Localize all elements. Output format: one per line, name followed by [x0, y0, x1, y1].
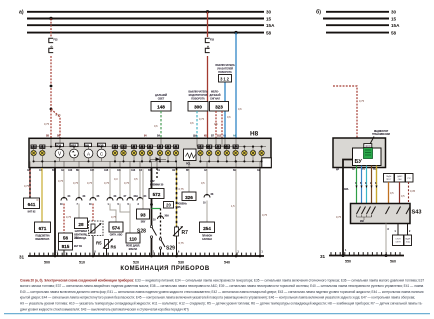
svg-text:СИГНАЛ: СИГНАЛ	[210, 98, 220, 101]
svg-text:0,5: 0,5	[401, 194, 405, 198]
svg-text:СИГН: СИГН	[395, 242, 401, 244]
connector E35	[112, 145, 118, 156]
svg-text:крытой двери; Е44 — сигнальная: крытой двери; Е44 — сигнальная лампа неп…	[20, 296, 415, 300]
svg-text:0,75: 0,75	[124, 181, 130, 185]
wire bus15 to fuse F13	[50, 19, 52, 38]
internal entry stubs top	[51, 139, 236, 147]
rheostat R6	[103, 239, 117, 250]
rheostat R7	[173, 226, 188, 236]
box 326	[182, 192, 196, 201]
gauge H9	[84, 143, 93, 161]
svg-text:ПОВОРОТА: ПОВОРОТА	[191, 98, 205, 101]
svg-text:58: 58	[266, 30, 272, 35]
wire 323 pin1 to H8	[215, 111, 217, 138]
box 641	[24, 198, 40, 213]
svg-text:ИНДИКАТОР: ИНДИКАТОР	[374, 130, 389, 133]
svg-text:110: 110	[129, 237, 137, 242]
connector X7 pin5	[114, 168, 127, 206]
connector E49	[250, 150, 255, 155]
internal bus bottom right	[200, 160, 266, 162]
wire to box 93	[142, 168, 144, 209]
svg-text:148: 148	[157, 105, 165, 110]
svg-text:ПОДСВЕТКА: ПОДСВЕТКА	[35, 234, 50, 237]
wire bus30 to fuse F15	[207, 12, 209, 37]
svg-text:0,6: 0,6	[154, 124, 158, 128]
box 815	[59, 242, 83, 251]
box 148 high beam	[151, 94, 171, 111]
connector E38	[139, 145, 145, 156]
svg-text:572: 572	[153, 192, 161, 197]
svg-text:15А: 15А	[391, 23, 400, 28]
svg-text:ПРОТ: ПРОТ	[386, 179, 392, 181]
svg-text:ПОВОРОТА: ПОВОРОТА	[218, 71, 232, 74]
svg-text:Х5А: Х5А	[165, 215, 170, 218]
internal bus top right	[200, 146, 266, 148]
stub dots top	[33, 146, 263, 148]
svg-text:НАГРЕВКА: НАГРЕВКА	[75, 230, 88, 233]
svg-text:671: 671	[39, 226, 47, 231]
connector X3 pin1	[104, 168, 117, 206]
svg-text:В12: В12	[217, 136, 222, 138]
connector E37	[131, 145, 137, 156]
svg-text:КНТ К2: КНТ К2	[28, 211, 37, 213]
wire 148 to H8	[160, 111, 162, 138]
svg-text:326: 326	[185, 195, 193, 200]
svg-text:0,75: 0,75	[87, 181, 93, 185]
connector E47	[233, 145, 239, 156]
wire cyan (b)	[366, 166, 368, 204]
svg-text:ЭБУ: ЭБУ	[150, 181, 155, 183]
svg-text:815: 815	[62, 244, 70, 249]
svg-text:КОМБИНАЦИЯ ПРИБОРОВ: КОМБИНАЦИЯ ПРИБОРОВ	[120, 266, 209, 272]
svg-text:0,5: 0,5	[37, 198, 41, 202]
ground ticks (a)	[30, 253, 260, 256]
svg-text:А11: А11	[117, 169, 122, 172]
wire S43 to ground (b)	[385, 224, 390, 258]
svg-text:30: 30	[391, 10, 397, 15]
svg-text:ЭБУ: ЭБУ	[141, 221, 146, 223]
svg-text:0,6: 0,6	[227, 115, 231, 119]
sensor box 2 (b)	[395, 174, 406, 183]
svg-text:малого запаса топлива; Е37 — с: малого запаса топлива; Е37 — сигнальная …	[20, 284, 424, 288]
svg-text:323: 323	[215, 105, 223, 110]
internal exit stubs bottom	[30, 161, 260, 167]
svg-text:0,75: 0,75	[359, 99, 365, 103]
svg-text:550: 550	[345, 260, 351, 264]
svg-text:0,5: 0,5	[214, 122, 218, 126]
connector E41	[165, 145, 171, 156]
box 572	[149, 189, 164, 199]
S43 switches left	[357, 207, 376, 223]
svg-text:0,75: 0,75	[56, 113, 62, 117]
wire brown (b)	[371, 166, 373, 204]
svg-text:САЛОНА: САЛОНА	[202, 238, 212, 241]
gauge H10	[97, 143, 106, 161]
svg-text:58: 58	[391, 30, 397, 35]
svg-text:S29: S29	[166, 246, 175, 252]
bus 58 (a)	[27, 30, 272, 35]
label indicator transmission	[369, 130, 390, 146]
connector E48	[242, 150, 247, 155]
svg-text:0,35: 0,35	[410, 189, 416, 193]
svg-text:0,75: 0,75	[111, 215, 117, 219]
connector X4	[58, 168, 71, 206]
connector E33	[31, 145, 37, 156]
wire X3A to 110	[129, 204, 131, 234]
svg-text:560: 560	[390, 260, 396, 264]
svg-text:20: 20	[206, 45, 210, 49]
S43 switches right	[386, 207, 411, 215]
svg-text:ХОД: ХОД	[406, 242, 411, 244]
wire 300 to H8	[196, 111, 198, 138]
connector X4 pin3	[134, 168, 147, 206]
cluster box (b)	[333, 138, 386, 168]
wire S29 to ground	[161, 249, 165, 256]
svg-text:ВЕНТИЛЯЦ.: ВЕНТИЛЯЦ.	[74, 235, 88, 237]
ground wire through S28	[150, 168, 155, 256]
bus 15A (b)	[326, 23, 400, 28]
connector E34	[40, 145, 46, 156]
node F15 tap on bus 30	[206, 10, 209, 13]
svg-text:Е40 — контрольная лампа включе: Е40 — контрольная лампа включения дальне…	[20, 290, 424, 294]
bus 15 (b)	[323, 16, 397, 21]
wire X5A to S29	[160, 209, 162, 239]
connector E45	[215, 145, 221, 156]
wire H8 to 326	[188, 168, 190, 192]
svg-text:ТРАНСМИССИИ: ТРАНСМИССИИ	[372, 133, 390, 136]
svg-text:СВЕТ: СВЕТ	[158, 98, 165, 101]
wire F15 down to H8	[207, 56, 209, 138]
rheostat R5	[89, 221, 104, 246]
box 574	[109, 222, 123, 236]
wire dashed red feed (b)	[333, 86, 365, 148]
switch S29	[159, 238, 175, 252]
caption paragraph	[20, 278, 424, 311]
control unit BU	[353, 148, 382, 166]
svg-text:дачи уровня жидкости стеклоомы: дачи уровня жидкости стеклоомывателя; S4…	[20, 307, 189, 311]
node branch	[50, 108, 53, 111]
svg-text:ВЫКЛЮЧАТ.: ВЫКЛЮЧАТ.	[35, 238, 50, 241]
svg-text:28: 28	[78, 222, 84, 227]
svg-text:31: 31	[320, 254, 326, 259]
ground wire right	[259, 168, 268, 257]
svg-text:ДАВЛ: ДАВЛ	[397, 175, 403, 178]
svg-text:А15: А15	[104, 169, 109, 172]
node on F13 wire	[50, 85, 53, 88]
pin labels below H8	[27, 169, 261, 172]
svg-text:0,75: 0,75	[104, 181, 110, 185]
svg-text:0,3: 0,3	[114, 177, 118, 181]
svg-text:0,75: 0,75	[73, 181, 79, 185]
bus 58 (b)	[326, 30, 397, 35]
pin label D4	[336, 168, 376, 171]
wire H8 to 641	[24, 168, 30, 198]
svg-text:93: 93	[140, 213, 146, 218]
svg-text:20: 20	[50, 45, 54, 49]
gauge H12 turn indicator	[70, 143, 79, 161]
svg-text:Н8: Н8	[250, 131, 259, 138]
svg-text:а): а)	[19, 10, 24, 16]
svg-text:0,5: 0,5	[134, 177, 138, 181]
diode D1	[150, 157, 166, 161]
svg-text:312: 312	[220, 77, 230, 82]
wire R6 to ground	[106, 249, 108, 257]
wire X8 to 254	[206, 201, 208, 223]
svg-text:СТОП: СТОП	[395, 239, 401, 241]
svg-text:РТС: РТС	[407, 178, 411, 180]
svg-text:СИГН. АВО: СИГН. АВО	[110, 233, 123, 236]
svg-text:15А: 15А	[266, 23, 275, 28]
svg-text:641: 641	[28, 202, 36, 207]
yellow connector stubs	[34, 147, 262, 162]
wire 815 to ground	[64, 250, 68, 256]
bus 30 (b)	[326, 10, 397, 15]
svg-text:ЗАДН: ЗАДН	[386, 175, 392, 178]
connector E40	[157, 145, 163, 156]
node 58 tap	[234, 31, 237, 34]
relay RC1	[184, 149, 197, 166]
wire 323 pin2 to H8	[221, 111, 223, 138]
bottom rule	[4, 313, 430, 315]
sensor boxes row (b)	[384, 174, 395, 183]
svg-text:Х3А: Х3А	[134, 195, 139, 198]
stub dots bottom	[33, 160, 263, 162]
svg-text:МАСЛА: МАСЛА	[129, 248, 138, 251]
ground wire BU	[336, 160, 353, 256]
instrument cluster H8	[29, 131, 271, 168]
svg-text:540: 540	[224, 260, 230, 264]
svg-text:R6: R6	[111, 245, 117, 250]
switch S28	[137, 225, 157, 238]
svg-text:R5: R5	[96, 241, 102, 246]
connector X3A (b)	[344, 182, 378, 191]
connector E36	[121, 145, 127, 156]
wire H8 to 671	[37, 168, 43, 222]
svg-text:А12: А12	[90, 169, 95, 172]
svg-text:0,75: 0,75	[44, 122, 50, 126]
svg-text:0,5: 0,5	[201, 181, 205, 185]
box 20 fuel level	[164, 202, 188, 209]
svg-text:б): б)	[316, 9, 321, 16]
connector E39	[147, 145, 153, 156]
connector X5A	[153, 215, 169, 222]
svg-text:500: 500	[44, 260, 50, 264]
gauge H11 voltmeter	[55, 143, 64, 161]
svg-text:1,5: 1,5	[231, 204, 235, 208]
svg-text:БУ: БУ	[355, 159, 363, 165]
wire red dashed (b)	[409, 182, 416, 204]
wire X7 to 110	[120, 204, 130, 213]
svg-text:S43: S43	[412, 210, 422, 216]
svg-text:15: 15	[391, 16, 397, 21]
wire F13 down	[50, 56, 52, 138]
connector X3 pin7	[73, 168, 86, 206]
ground wire B1	[55, 168, 59, 256]
svg-text:0,75: 0,75	[336, 215, 342, 219]
internal bus top left	[34, 146, 176, 148]
svg-text:ВЫВОДА: ВЫВОДА	[76, 237, 87, 240]
svg-text:0,75: 0,75	[24, 184, 30, 188]
svg-text:РС1: РС1	[186, 164, 191, 166]
connector X8	[201, 168, 214, 205]
junction dots on ground bus	[54, 255, 178, 258]
wire orange (b)	[389, 182, 395, 204]
wire H8 to 572	[150, 168, 164, 186]
connector E43	[198, 145, 204, 156]
svg-text:0,75: 0,75	[262, 213, 268, 217]
svg-text:Х3А: Х3А	[344, 188, 349, 191]
wire X3 to 574	[110, 204, 117, 223]
connector X5 pin10	[87, 168, 100, 206]
connector E42	[173, 145, 179, 156]
connector E50	[259, 150, 264, 155]
wire H8 to R7 yellow-black	[177, 168, 185, 227]
svg-text:КНТ В1: КНТ В1	[74, 246, 83, 248]
node F13 tap on bus 15	[49, 17, 52, 20]
connector E46	[224, 145, 230, 156]
svg-text:520: 520	[133, 260, 139, 264]
ground bus 31 (b)	[320, 254, 404, 259]
svg-text:254: 254	[203, 226, 211, 231]
svg-text:15: 15	[266, 16, 272, 21]
wire yellow (b)	[376, 166, 378, 204]
svg-text:РЕЛЕ ДАВЛ.: РЕЛЕ ДАВЛ.	[126, 244, 140, 247]
svg-text:ЗАДН: ЗАДН	[405, 238, 411, 241]
option box 1 (b)	[393, 235, 404, 246]
svg-text:ЖКИ: ЖКИ	[365, 145, 371, 148]
junction dots inside H8 bottom	[41, 160, 262, 162]
box 312 turn signal switch	[215, 64, 235, 82]
ground section labels (b)	[345, 260, 396, 264]
option box 2 (b)	[404, 235, 412, 246]
svg-text:0,6: 0,6	[238, 107, 242, 111]
wire dark red (b)	[400, 182, 406, 204]
LCD display	[364, 144, 373, 159]
svg-text:А13: А13	[131, 169, 136, 172]
svg-text:0,5: 0,5	[390, 191, 394, 195]
svg-text:56: 56	[63, 236, 69, 241]
svg-text:Схема 20 (а, б). Электрическая: Схема 20 (а, б). Электрическая схема сое…	[20, 278, 424, 282]
fuse F15	[205, 38, 214, 52]
svg-text:0,75: 0,75	[58, 179, 64, 183]
svg-text:510: 510	[79, 260, 85, 264]
wire X3 to 28	[78, 204, 80, 219]
svg-text:30: 30	[266, 10, 272, 15]
sensor box 3 (b)	[406, 174, 414, 183]
wire blue (b)	[361, 166, 363, 204]
ground wire 1,5	[231, 168, 240, 257]
svg-text:300: 300	[194, 105, 202, 110]
green link wire	[152, 208, 161, 210]
box 323 melodic signal	[210, 91, 229, 112]
svg-text:ПЛАФОН: ПЛАФОН	[202, 234, 213, 237]
svg-text:0,75: 0,75	[179, 187, 185, 191]
junction dots inside H8 top	[50, 146, 254, 148]
bus 15A (a)	[27, 23, 275, 28]
svg-text:530: 530	[178, 260, 184, 264]
box 300 turn repeater switch	[188, 91, 208, 112]
ground ticks (b)	[331, 252, 400, 255]
fuse F13	[49, 38, 58, 52]
box 56	[59, 233, 80, 242]
box 671	[35, 222, 51, 241]
connector E44	[207, 145, 213, 156]
bus 15 (a)	[27, 16, 272, 21]
wire bus58 to H8	[235, 33, 237, 138]
pin stubs to option boxes	[395, 224, 412, 236]
svg-text:0,75: 0,75	[199, 117, 205, 121]
svg-text:0,6: 0,6	[190, 121, 194, 125]
svg-text:А10: А10	[68, 169, 73, 172]
svg-text:20: 20	[166, 203, 171, 208]
internal bus bottom left	[34, 160, 176, 162]
wire R7 to ground	[177, 236, 185, 256]
bus 30 (a)	[27, 10, 272, 15]
switch unit S43	[351, 204, 422, 224]
box 254	[200, 222, 215, 241]
ground bus 31 (a)	[19, 255, 264, 260]
connector block at H8 right end	[262, 158, 272, 168]
ground section labels	[44, 260, 230, 264]
wire green (b)	[356, 166, 358, 204]
svg-text:574: 574	[112, 226, 120, 231]
svg-text:0,75: 0,75	[66, 215, 72, 219]
box 93	[137, 209, 150, 223]
wire branch to pin	[51, 109, 60, 138]
wire X5 to R5	[92, 204, 94, 222]
pin labels above H8	[46, 135, 237, 138]
box 110	[126, 233, 140, 251]
wire R5 to ground	[93, 236, 97, 257]
wire 312 to H8	[224, 83, 226, 139]
svg-text:Н9 — указатель уровня топлива;: Н9 — указатель уровня топлива; Н10 — ука…	[20, 302, 422, 306]
svg-text:S28: S28	[137, 229, 146, 235]
box 28	[74, 218, 88, 240]
svg-text:КЛЕММА 30: КЛЕММА 30	[150, 183, 164, 186]
svg-text:0,75: 0,75	[179, 241, 185, 245]
svg-text:R7: R7	[182, 230, 189, 236]
connector X3A pin5	[124, 168, 138, 206]
svg-text:31: 31	[19, 255, 25, 260]
wire X4 to 56	[64, 204, 72, 234]
